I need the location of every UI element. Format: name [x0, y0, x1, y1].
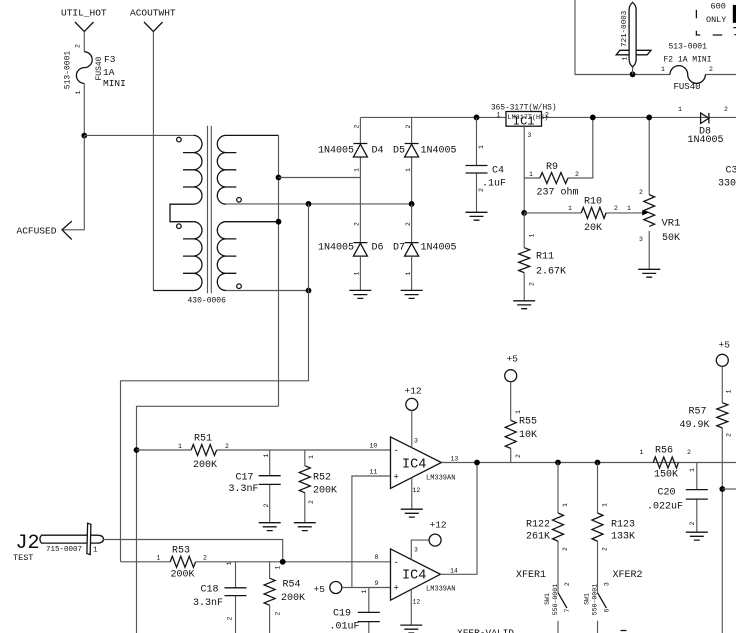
capacitor C19: [330, 588, 380, 633]
jumper 721-0003 body: [621, 2, 636, 74]
wire AC2 column down to lower bend: [121, 204, 309, 562]
svg-text:2: 2: [562, 547, 569, 551]
capacitor C3 labels (cut at edge): [718, 166, 736, 190]
svg-text:1: 1: [353, 271, 360, 275]
svg-text:50K: 50K: [662, 233, 680, 244]
fuse F3: [63, 44, 126, 95]
svg-text:3.3nF: 3.3nF: [229, 484, 259, 495]
node UTIL_HOT input port: [61, 8, 107, 32]
svg-text:6: 6: [604, 608, 611, 612]
svg-text:1: 1: [263, 453, 270, 457]
svg-text:1N4005: 1N4005: [318, 243, 354, 254]
capacitor C20: [647, 463, 708, 533]
svg-text:R51: R51: [194, 434, 212, 445]
svg-text:550-0001: 550-0001: [591, 584, 598, 615]
svg-text:2: 2: [724, 106, 728, 113]
svg-text:2: 2: [274, 612, 281, 616]
svg-text:LM339AN: LM339AN: [426, 586, 455, 594]
junction F3 output: [81, 133, 87, 139]
svg-text:2: 2: [639, 189, 643, 196]
svg-text:-: -: [394, 558, 399, 568]
junction R9 to rail: [590, 115, 596, 121]
svg-text:+5: +5: [507, 354, 519, 365]
svg-text:ACOUTWHT: ACOUTWHT: [130, 8, 176, 19]
resistor R53: [157, 546, 208, 581]
wire IC4 pin11 feedback: [352, 476, 391, 588]
svg-text:2: 2: [564, 582, 571, 586]
svg-text:513-0001: 513-0001: [669, 43, 708, 52]
junction outputs tied: [474, 460, 480, 466]
wire +5 to IC4 pin9: [342, 587, 391, 589]
svg-text:F2 1A MINI: F2 1A MINI: [664, 56, 712, 65]
svg-text:MINI: MINI: [103, 78, 126, 89]
svg-text:2: 2: [203, 555, 207, 562]
svg-text:1: 1: [678, 106, 682, 113]
transformer secondary phase dot bottom winding: [237, 284, 242, 289]
svg-text:2: 2: [308, 500, 315, 504]
svg-text:3: 3: [639, 236, 643, 243]
svg-text:1: 1: [353, 168, 360, 172]
diode D8: [678, 106, 728, 146]
svg-text:200K: 200K: [281, 593, 305, 604]
svg-text:SW1: SW1: [544, 593, 551, 605]
svg-text:1A: 1A: [103, 67, 115, 78]
svg-text:1: 1: [405, 168, 412, 172]
svg-text:1: 1: [528, 233, 535, 237]
svg-text:C3: C3: [726, 166, 736, 177]
svg-text:1: 1: [93, 547, 98, 555]
svg-text:R9: R9: [546, 162, 558, 173]
power +5 port R57: [716, 340, 730, 367]
node ACFUSED output port: [17, 221, 72, 239]
svg-text:R57: R57: [689, 407, 707, 418]
svg-text:1: 1: [661, 66, 665, 73]
junction AC2 at x308: [306, 201, 312, 207]
svg-text:513-0001: 513-0001: [63, 51, 72, 90]
svg-text:1: 1: [226, 561, 233, 565]
wire IC4A pin12 to ground: [411, 477, 413, 509]
capacitor C4: [466, 117, 507, 212]
svg-text:550-0001: 550-0001: [552, 584, 559, 615]
svg-text:UTIL_HOT: UTIL_HOT: [61, 8, 107, 19]
svg-text:1: 1: [627, 205, 631, 212]
power +12 port IC4A pin3: [405, 386, 422, 448]
junction secondary node AC1: [276, 175, 282, 181]
svg-text:1N4005: 1N4005: [318, 146, 354, 157]
svg-text:1: 1: [478, 145, 485, 149]
svg-text:F3: F3: [104, 54, 116, 65]
switch XFER1 SW1: [516, 570, 571, 633]
transformer core: [208, 126, 212, 293]
svg-text:2: 2: [545, 112, 549, 119]
junction R10 R11 node: [521, 210, 527, 216]
junction R123 node: [595, 460, 601, 466]
wire positive rail top: [360, 116, 736, 118]
svg-text:2: 2: [353, 124, 360, 128]
svg-text:1: 1: [497, 112, 501, 119]
wire R53 rail to IC4 pin8: [121, 561, 391, 563]
capacitor C17: [229, 450, 281, 523]
transformer T1 430-0006: [153, 126, 278, 306]
diode D4: [318, 117, 384, 177]
svg-text:R11: R11: [536, 252, 554, 263]
svg-text:1N4005: 1N4005: [421, 146, 457, 157]
svg-text:XFER-VALID: XFER-VALID: [457, 628, 514, 633]
svg-text:2: 2: [689, 521, 696, 525]
wire top-right box corner: [575, 0, 670, 75]
svg-text:200K: 200K: [171, 570, 195, 581]
ground R11: [513, 301, 535, 309]
transformer primary winding top: [170, 135, 202, 221]
svg-text:J2: J2: [16, 532, 40, 555]
diode D6: [318, 222, 384, 290]
junction D5 anode on AC2: [409, 201, 415, 207]
junction C4 top: [474, 115, 480, 121]
svg-text:2: 2: [263, 503, 270, 507]
svg-text:C4: C4: [492, 166, 504, 177]
svg-text:2: 2: [226, 616, 233, 620]
svg-text:-: -: [394, 446, 399, 456]
svg-text:237 ohm: 237 ohm: [537, 187, 579, 199]
wire ACOUTWHT down to transformer bottom: [152, 32, 154, 291]
svg-text:2: 2: [405, 124, 412, 128]
svg-text:TEST: TEST: [13, 553, 33, 563]
svg-text:261K: 261K: [526, 532, 550, 543]
svg-text:2: 2: [601, 547, 608, 551]
wire secondary winding2 bottom exit: [226, 290, 309, 292]
resistor R122: [526, 463, 569, 593]
wire D4 anode down through AC2 to D6: [359, 178, 361, 243]
ground D7: [401, 290, 423, 298]
svg-text:1: 1: [405, 271, 412, 275]
svg-text:R123: R123: [611, 520, 635, 531]
power +5 port R55: [505, 354, 519, 382]
potentiometer VR1: [627, 117, 680, 269]
svg-text:2: 2: [353, 222, 360, 226]
svg-text:+: +: [394, 584, 399, 594]
svg-text:13: 13: [451, 456, 459, 463]
svg-text:2: 2: [405, 222, 412, 226]
wire primary top rail: [84, 134, 193, 136]
wire R57 column down to edge: [721, 463, 723, 633]
svg-text:C17: C17: [236, 473, 254, 484]
svg-text:VR1: VR1: [662, 218, 681, 230]
svg-text:10: 10: [370, 443, 378, 450]
wire UTIL_HOT to fuse F3: [83, 32, 85, 52]
svg-text:200K: 200K: [313, 486, 337, 497]
svg-text:C19: C19: [333, 609, 351, 620]
svg-text:IC4: IC4: [402, 458, 426, 473]
wire R51 rail to IC4 pin10: [137, 449, 391, 451]
svg-text:+12: +12: [430, 520, 447, 531]
svg-text:2: 2: [725, 433, 732, 437]
resistor R52: [299, 450, 337, 523]
junction sword jumper to wire: [630, 71, 636, 77]
svg-text:R54: R54: [283, 580, 301, 591]
diode D5: [393, 117, 457, 203]
svg-text:1: 1: [178, 443, 182, 450]
svg-text:721-0003: 721-0003: [621, 10, 629, 47]
fuse F2: [661, 43, 713, 93]
svg-text:1: 1: [308, 455, 315, 459]
junction R51 input: [134, 447, 140, 453]
svg-text:R53: R53: [172, 546, 190, 557]
svg-text:1: 1: [568, 205, 572, 212]
transformer primary phase dot top: [177, 137, 182, 142]
svg-text:1: 1: [621, 57, 628, 61]
transformer secondary winding top: [217, 135, 278, 204]
svg-text:D4: D4: [372, 146, 384, 157]
svg-text:715-0007: 715-0007: [46, 546, 82, 554]
svg-text:150K: 150K: [654, 470, 678, 481]
resistor R57: [680, 366, 733, 462]
svg-text:8: 8: [375, 554, 379, 561]
svg-text:200K: 200K: [193, 460, 217, 471]
svg-text:LM339AN: LM339AN: [426, 475, 455, 483]
svg-text:R56: R56: [655, 446, 673, 457]
svg-text:10K: 10K: [519, 430, 537, 441]
svg-text:7: 7: [564, 608, 571, 612]
svg-text:.022uF: .022uF: [647, 502, 683, 513]
wire junction down to ACFUSED: [62, 136, 84, 230]
wire tap to right edge: [722, 488, 736, 490]
ground C4: [466, 212, 488, 220]
resistor R56: [640, 446, 692, 481]
svg-text:3: 3: [414, 547, 418, 554]
svg-text:330: 330: [718, 179, 736, 190]
svg-text:R55: R55: [519, 417, 537, 428]
svg-text:2: 2: [74, 44, 81, 48]
svg-text:600: 600: [711, 2, 726, 12]
junction R122 node: [555, 460, 561, 466]
wire IC4B output up to IC4A output: [440, 463, 477, 575]
ground IC4A: [401, 509, 423, 517]
svg-text:ACFUSED: ACFUSED: [17, 226, 57, 237]
svg-text:1N4005: 1N4005: [421, 243, 457, 254]
svg-text:1: 1: [562, 503, 569, 507]
svg-text:XFER2: XFER2: [613, 570, 643, 581]
svg-text:ONLY: ONLY: [706, 15, 726, 25]
wire IC1 pin3 down: [523, 126, 525, 213]
svg-text:+: +: [394, 473, 399, 483]
svg-text:1: 1: [725, 389, 732, 393]
wire F2 output to edge: [705, 74, 736, 76]
resistor R11: [519, 213, 566, 301]
svg-text:20K: 20K: [584, 223, 602, 234]
svg-text:1: 1: [601, 503, 608, 507]
svg-text:2: 2: [528, 282, 535, 286]
note 600 ONLY dashed box: [696, 2, 736, 36]
svg-text:1: 1: [75, 90, 82, 94]
svg-text:3.3nF: 3.3nF: [193, 598, 223, 609]
svg-text:C18: C18: [201, 585, 219, 596]
svg-text:+5: +5: [719, 340, 731, 351]
svg-text:49.9K: 49.9K: [680, 420, 710, 431]
transformer secondary winding bottom: [217, 222, 278, 291]
junction J2 wire with R53 rail: [280, 559, 286, 565]
power +5 port at IC4 pin9: [314, 582, 342, 596]
wire comparator output rail: [441, 462, 736, 464]
ground IC4B: [400, 625, 422, 633]
svg-text:2: 2: [709, 66, 713, 73]
transformer primary winding bottom: [153, 222, 202, 291]
transformer primary phase dot bottom: [177, 224, 182, 229]
svg-text:SW1: SW1: [583, 593, 590, 605]
resistor R54: [264, 562, 305, 633]
junction winding2 bottom: [306, 288, 312, 294]
regulator IC1 LM317: [491, 105, 557, 140]
svg-text:1: 1: [529, 171, 533, 178]
svg-text:1: 1: [361, 589, 368, 593]
connector J2 TEST: [13, 523, 103, 563]
svg-text:2: 2: [687, 449, 691, 456]
svg-text:FUS40: FUS40: [674, 82, 701, 92]
svg-text:133K: 133K: [611, 532, 635, 543]
svg-text:12: 12: [413, 599, 421, 606]
junction rail to VR1: [646, 115, 652, 121]
svg-text:1: 1: [157, 555, 161, 562]
ground partial bottom right: [621, 630, 627, 632]
diode D7: [393, 222, 457, 290]
ground C20: [686, 532, 708, 540]
svg-text:2.67K: 2.67K: [536, 267, 566, 278]
svg-text:2: 2: [575, 171, 579, 178]
svg-text:R10: R10: [584, 197, 602, 208]
wire IC4B pin12 to ground: [410, 590, 412, 626]
op-amp IC4 comparator B: [375, 547, 458, 606]
wire secondary exit rail AC2: [226, 203, 412, 205]
ground D6: [349, 290, 371, 298]
jumper 721-0003 plate: [616, 50, 651, 55]
svg-text:+5: +5: [314, 584, 326, 595]
resistor R55: [505, 382, 537, 463]
wire F3 to junction: [83, 83, 85, 135]
svg-text:12: 12: [413, 487, 421, 494]
wire J2 to R53 output node: [103, 540, 282, 562]
capacitor C18: [193, 561, 247, 633]
svg-text:2: 2: [515, 454, 522, 458]
svg-text:+12: +12: [405, 386, 422, 397]
svg-text:D5: D5: [393, 146, 405, 157]
node ACOUTWHT input port: [130, 8, 176, 32]
resistor R10: [524, 197, 643, 235]
svg-text:D6: D6: [372, 243, 384, 254]
svg-text:430-0006: 430-0006: [188, 297, 227, 306]
svg-text:R122: R122: [526, 520, 550, 531]
svg-text:1: 1: [274, 566, 281, 570]
svg-text:1: 1: [515, 410, 522, 414]
svg-text:R52: R52: [313, 473, 331, 484]
svg-text:1N4005: 1N4005: [688, 135, 724, 146]
svg-text:2: 2: [225, 443, 229, 450]
svg-text:1: 1: [640, 449, 644, 456]
svg-text:3: 3: [528, 132, 532, 139]
switch XFER2 SW1: [583, 570, 642, 633]
op-amp IC4 comparator A: [370, 437, 459, 494]
svg-text:.1uF: .1uF: [482, 179, 506, 190]
svg-text:3: 3: [414, 438, 418, 445]
svg-text:.01uF: .01uF: [330, 622, 360, 633]
svg-text:14: 14: [450, 568, 458, 575]
svg-text:11: 11: [370, 469, 378, 476]
svg-text:XFER1: XFER1: [516, 570, 546, 581]
ground C17: [259, 523, 281, 531]
svg-text:D7: D7: [393, 243, 405, 254]
svg-text:3: 3: [603, 582, 610, 586]
junction right edge tap: [719, 486, 725, 492]
resistor R123: [592, 463, 635, 593]
resistor R9: [524, 117, 593, 198]
junction secondary winding2 entry: [276, 219, 282, 225]
ground VR1: [638, 269, 660, 277]
ground R52: [294, 523, 316, 531]
power +12 port IC4B pin3: [411, 520, 447, 560]
svg-text:2: 2: [614, 205, 618, 212]
transformer secondary phase dot top winding: [237, 198, 242, 203]
svg-text:IC4: IC4: [402, 569, 426, 584]
wire AC1 column down to lower bend: [137, 406, 279, 633]
svg-text:9: 9: [375, 580, 379, 587]
wire node AC1 to D4 anode: [279, 177, 361, 179]
wire D7 top: [411, 204, 413, 243]
svg-text:C20: C20: [658, 488, 676, 499]
svg-text:1: 1: [689, 468, 696, 472]
resistor R51: [178, 434, 229, 472]
wire secondary top end corner down: [278, 135, 280, 406]
